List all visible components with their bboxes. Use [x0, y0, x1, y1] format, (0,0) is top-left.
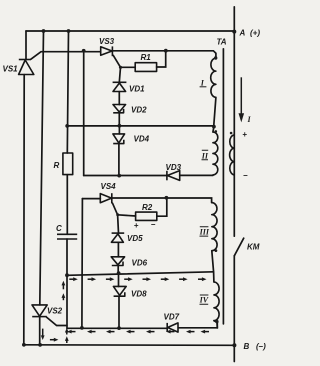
junction node winding I top — [214, 56, 217, 59]
label C — [56, 224, 62, 233]
wire winding I bottom lead — [214, 97, 216, 126]
wire VS3 gate — [113, 55, 120, 67]
junction node C rail / mid line — [65, 273, 69, 277]
label secondary plus — [242, 130, 247, 139]
label R2 plus — [134, 221, 139, 230]
wire gate node to R2 — [118, 215, 136, 216]
svg-text:VD4: VD4 — [134, 135, 150, 144]
polarity dot winding II — [215, 130, 218, 133]
diode VD1 — [113, 82, 127, 91]
wire VS4 cathode to winding III top — [112, 198, 212, 203]
junction node R2 tap — [165, 196, 169, 200]
wire gate node to R1 — [121, 66, 136, 68]
junction node VD2-VD4 / winding I line — [118, 124, 122, 128]
wire winding I bottom line — [67, 125, 214, 127]
wire right rail upper (terminal A lead) — [233, 7, 235, 236]
label VD8 — [131, 289, 147, 298]
label VD6 — [132, 258, 148, 267]
wire VS2 chain rail — [40, 31, 44, 345]
winding III — [212, 203, 218, 251]
svg-text:VS4: VS4 — [101, 182, 117, 191]
wire VS3-anode node down to VD3 line — [83, 51, 85, 176]
svg-text:+: + — [134, 221, 139, 230]
wire gate node to VD1 — [119, 67, 120, 82]
capacitor C — [57, 234, 77, 239]
svg-text:–: – — [151, 220, 156, 229]
wire winding III bottom to winding IV top — [212, 251, 214, 282]
thyristor VS4 — [100, 193, 112, 203]
label VS4 — [101, 182, 117, 191]
junction node winding I bottom — [212, 125, 216, 129]
label VS3 — [99, 37, 115, 46]
wire VD6 to mid line — [117, 266, 119, 274]
svg-text:VD1: VD1 — [129, 85, 145, 94]
flux arrows bottom dashed row (leftward) — [67, 330, 209, 334]
junction node VS3 gate — [119, 66, 122, 69]
wire VS4 gate — [113, 203, 118, 215]
label winding I numeral — [200, 78, 207, 87]
svg-text:B: B — [244, 342, 250, 351]
flux arrow beside VS2 (downward) — [41, 329, 45, 340]
svg-text:VD5: VD5 — [127, 234, 143, 243]
diode VD2 — [113, 105, 126, 113]
flux arrows lower vertical (upward, beside VS2 gate node) — [65, 328, 69, 343]
svg-text:VD6: VD6 — [132, 258, 148, 267]
junction node VD8 / bottom wire — [117, 326, 121, 330]
junction node bottom rail / VS2 — [38, 343, 42, 347]
wire mid line C-rail to winding III/IV junction — [67, 272, 213, 276]
junction node VD6-VD8 / mid line — [117, 271, 121, 275]
svg-text:+: + — [242, 130, 247, 139]
wire VD4 to VD3 line — [118, 144, 120, 176]
thyristor VS2 — [32, 305, 47, 317]
label B (-) — [244, 342, 267, 351]
wire gate node to VD5 — [117, 215, 120, 233]
svg-text:IV: IV — [199, 296, 209, 305]
junction node R1 tap — [164, 49, 168, 53]
wire R1 right to anode line — [157, 51, 166, 67]
diode VD3 — [167, 171, 180, 181]
winding II — [212, 132, 218, 175]
resistor R2 — [136, 212, 157, 220]
label VD5 — [127, 234, 143, 243]
svg-text:III: III — [199, 228, 210, 237]
svg-text:A: A — [239, 29, 246, 38]
wire VD3 line (VD4 bottom to winding II bottom) — [84, 174, 213, 176]
label R1 — [141, 53, 152, 62]
label winding III numeral — [199, 227, 210, 237]
flux arrows top dashed row (rightward) — [69, 277, 206, 281]
svg-text:C: C — [56, 224, 62, 233]
wire VS4 anode line — [82, 198, 100, 200]
junction node VS4 gate — [116, 213, 119, 216]
polarity dot winding III bottom — [215, 249, 218, 252]
wire VS4 anode down to bottom wire — [81, 199, 84, 328]
wire top rail A(+) bus — [26, 30, 234, 32]
contact KM blade — [234, 238, 243, 256]
label VD1 — [129, 85, 145, 94]
svg-text:VS3: VS3 — [99, 37, 115, 46]
wire VD8 to bottom wire — [118, 297, 120, 328]
svg-text:VD7: VD7 — [164, 312, 180, 321]
junction node B — [232, 343, 236, 347]
junction node anode line / x84 wire — [82, 49, 86, 53]
flux arrows left vertical (upward, beside C rail) — [62, 281, 66, 300]
junction node winding IV bottom — [215, 320, 218, 323]
label VD2 — [131, 106, 147, 115]
svg-text:VS1: VS1 — [3, 65, 19, 74]
resistor R1 — [135, 63, 156, 72]
label R2 — [142, 203, 153, 212]
current arrow I — [239, 77, 245, 122]
label VD7 — [164, 312, 180, 321]
wire winding II top lead — [213, 127, 214, 132]
svg-text:R2: R2 — [142, 203, 153, 212]
winding IV — [214, 282, 219, 321]
label R2 minus — [151, 220, 156, 229]
wire winding IV bottom lead — [214, 321, 217, 328]
wire R2 right to cathode line — [157, 198, 167, 216]
thyristor VS1 — [19, 60, 34, 75]
junction node top rail / RC rail — [67, 29, 71, 33]
label VS1 — [3, 65, 19, 74]
wire right rail lower (terminal B lead) — [233, 256, 235, 362]
wire VS1 chain left rail — [24, 31, 26, 345]
label current I — [247, 115, 252, 124]
diode VD5 — [111, 233, 124, 242]
label TA — [217, 38, 227, 47]
svg-text:(–): (–) — [256, 342, 266, 351]
svg-text:VD3: VD3 — [166, 163, 182, 172]
label winding II numeral — [201, 150, 209, 160]
junction node VS4 anode / bottom wire — [80, 326, 84, 330]
wire VD4 top lead — [118, 126, 120, 134]
label A (+) — [239, 29, 261, 38]
label VS2 — [47, 307, 63, 316]
svg-text:R1: R1 — [141, 53, 152, 62]
label VD3 — [166, 163, 182, 172]
wire R C rail — [67, 31, 69, 328]
wire VD8 top lead — [118, 273, 120, 286]
junction node A — [232, 30, 236, 34]
label R — [54, 161, 60, 170]
winding TA secondary — [230, 135, 235, 175]
wire VD2 to winding I line — [118, 113, 120, 126]
label winding IV numeral — [199, 295, 209, 305]
svg-text:R: R — [54, 161, 60, 170]
svg-text:VD8: VD8 — [131, 289, 147, 298]
svg-text:VS2: VS2 — [47, 307, 63, 316]
svg-text:VD2: VD2 — [131, 106, 147, 115]
diode VD6 — [111, 257, 124, 266]
flux arrow above bottom rail (rightward) — [50, 338, 59, 342]
junction node VD4 / VD3 line — [117, 174, 121, 178]
thyristor VS3 — [101, 46, 113, 56]
label VD4 — [134, 135, 150, 144]
resistor R — [63, 153, 73, 175]
winding I — [211, 58, 216, 97]
wire bottom rail B bus — [24, 344, 235, 347]
wire VS1 gate to VS3 anode (node y=51) — [31, 52, 101, 60]
svg-text:–: – — [243, 171, 248, 180]
svg-text:II: II — [201, 151, 209, 160]
diode VD8 — [113, 286, 126, 296]
junction node bottom rail / VS1 — [22, 343, 26, 347]
wire VS2 gate — [47, 317, 67, 325]
svg-text:KM: KM — [247, 242, 260, 251]
polarity dot TA secondary — [230, 132, 233, 135]
svg-text:TA: TA — [217, 38, 227, 47]
diode VD7 — [167, 323, 178, 332]
diode VD4 — [113, 134, 125, 144]
wire bottom VD7 line — [67, 322, 217, 328]
transformer TA core — [222, 49, 224, 324]
label secondary minus — [243, 171, 248, 180]
wire VS3 cathode to winding I top — [113, 51, 216, 58]
label KM — [247, 242, 260, 251]
wire VD5-VD6 link — [117, 242, 119, 256]
junction node RC rail / winding I line — [65, 124, 69, 128]
svg-text:(+): (+) — [250, 29, 260, 38]
junction node top rail / VS2 rail — [42, 29, 46, 33]
wire VD1-VD2 link — [118, 92, 120, 105]
